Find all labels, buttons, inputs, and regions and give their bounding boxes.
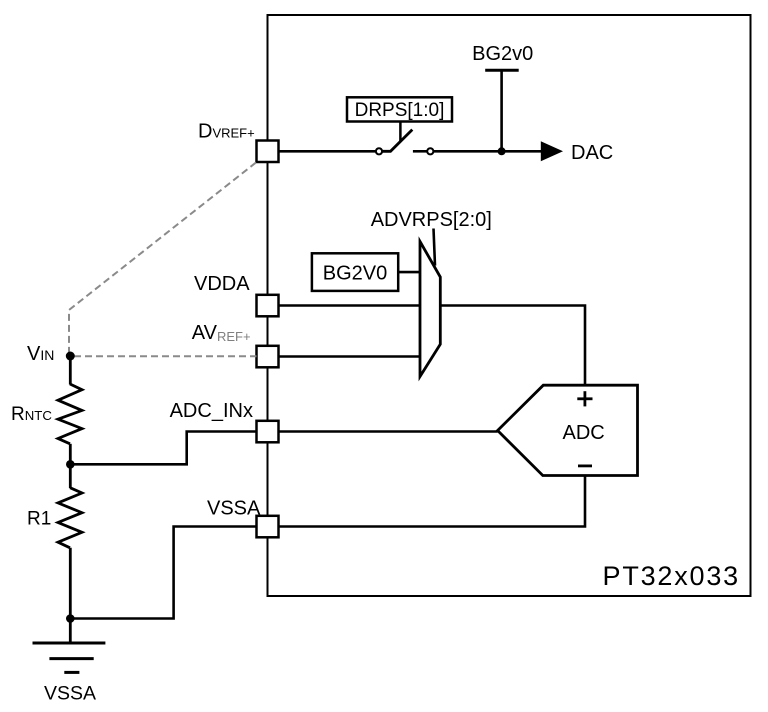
ADC block [498,385,638,475]
svg-text:DAC: DAC [571,142,613,164]
junction dot ground node [66,614,75,623]
wire junction to ADC_INx pin [70,432,256,465]
BG2v0 terminal bar [485,69,519,72]
node VIN junction dot [66,352,75,361]
svg-text:ADC_INx: ADC_INx [170,400,253,422]
wire BG2V0 box to mux [398,271,420,274]
mux select line [434,229,436,266]
wire AVREF+ pin to mux [279,355,421,358]
switch SW1 right stub [413,150,427,153]
wire BG2v0 to junction [500,70,503,151]
resistor R1 [58,488,82,548]
svg-text:BG2V0: BG2V0 [323,263,387,285]
switch SW1 blade [382,130,412,152]
mux U2 trapezoid [420,242,440,377]
pin DVREF+ [257,141,279,163]
junction dot on DAC wire [498,147,506,155]
ground symbol VSSA [33,642,106,645]
svg-text:VSSA: VSSA [207,498,261,520]
pin ADC_INx [257,421,279,443]
svg-text:PT32x033: PT32x033 [603,561,740,591]
ADC minus sign [578,464,592,467]
svg-text:ADC: ADC [563,422,605,444]
wire RNTC to junction [69,444,72,465]
BG2V0 source box [312,253,398,291]
resistor RNTC [58,384,82,444]
switch SW1 left contact [376,148,382,154]
wire ground node to VSSA pin [70,527,256,619]
label box DRPS[1:0] [347,97,452,121]
switch SW1 right contact [427,148,433,154]
svg-text:DRPS[1:0]: DRPS[1:0] [355,100,445,121]
switch SW1 control stub from DRPS box [399,122,402,142]
chip outline U1 PT32x033 [268,15,751,596]
wire ADC_INx pin to ADC point [279,430,498,433]
pin AVREF+ [257,346,279,368]
dashed feedback DVREF+ to VIN node [69,163,256,357]
svg-text:VDDA: VDDA [194,273,250,295]
wire junction to R1 [69,464,72,488]
dashed wire VIN node to AVREF+ pin [74,355,257,357]
pin VSSA [257,516,279,538]
svg-text:VIN: VIN [27,343,54,365]
svg-text:VSSA: VSSA [44,683,96,705]
svg-text:RNTC: RNTC [11,404,52,425]
wire R1 to ground junction [69,548,72,619]
ADC plus sign [577,397,592,400]
pin VDDA [257,295,279,317]
svg-text:R1: R1 [27,509,51,530]
wire VIN to RNTC [69,356,72,385]
wire mux output to ADC plus input [440,306,585,386]
wire DVREF+ pin to switch [279,150,376,153]
svg-text:ADVRPS[2:0]: ADVRPS[2:0] [371,209,492,231]
wire switch to DAC arrow [434,150,542,153]
junction dot RNTC/R1 [66,460,75,469]
wire ADC minus to VSSA rail [280,476,586,527]
arrow to DAC [541,141,563,161]
ground stem [69,619,72,644]
svg-text:BG2v0: BG2v0 [472,43,533,65]
wire VDDA pin to mux [279,304,421,307]
